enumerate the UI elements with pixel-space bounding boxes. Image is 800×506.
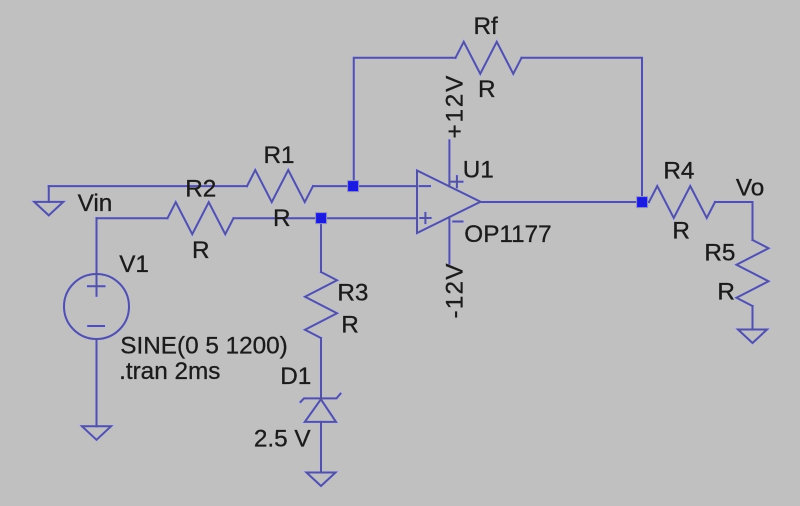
svg-text:Vin: Vin (78, 190, 113, 217)
svg-text:+12V: +12V (442, 74, 469, 139)
svg-text:R1: R1 (264, 142, 295, 169)
svg-text:U1: U1 (463, 157, 494, 184)
svg-text:R3: R3 (337, 280, 368, 307)
svg-text:Rf: Rf (474, 13, 499, 40)
svg-text:R5: R5 (704, 240, 735, 267)
svg-text:R: R (273, 205, 291, 232)
svg-text:R2: R2 (185, 176, 216, 203)
node junction (637, 197, 648, 208)
svg-text:D1: D1 (280, 363, 311, 390)
svg-text:R: R (478, 76, 496, 103)
svg-text:OP1177: OP1177 (464, 221, 551, 248)
svg-text:V1: V1 (119, 251, 149, 278)
svg-text:SINE(0 5 1200): SINE(0 5 1200) (120, 333, 287, 360)
svg-text:Vo: Vo (736, 175, 764, 202)
svg-text:-12V: -12V (442, 262, 469, 318)
svg-text:R4: R4 (663, 158, 694, 185)
svg-text:R: R (717, 279, 735, 306)
svg-text:R: R (341, 312, 359, 339)
svg-text:2.5 V: 2.5 V (254, 426, 312, 453)
svg-text:.tran 2ms: .tran 2ms (119, 358, 220, 385)
svg-text:R: R (192, 237, 210, 264)
node junction (348, 181, 359, 192)
svg-text:R: R (672, 218, 690, 245)
node junction (316, 213, 327, 224)
